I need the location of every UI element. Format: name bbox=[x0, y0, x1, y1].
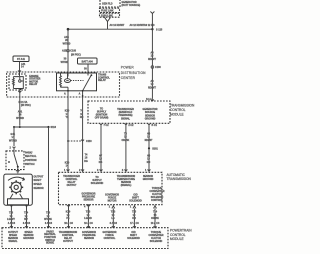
svg-text:3 A C3: 3 A C3 bbox=[110, 222, 118, 225]
svg-text:SOLENOID: SOLENOID bbox=[91, 182, 104, 185]
svg-text:S100 LINK: S100 LINK bbox=[101, 14, 113, 17]
svg-text:2 C2: 2 C2 bbox=[128, 124, 134, 127]
svg-text:MODULE: MODULE bbox=[170, 113, 184, 117]
TCM pin 2 bbox=[124, 123, 134, 172]
automatic transmission dashed box bbox=[59, 172, 163, 204]
wire from generator boxes bbox=[105, 17, 111, 29]
splice S113 wire bbox=[14, 126, 49, 128]
generator ref box G1 bbox=[100, 0, 120, 7]
transmission top pin ticks bbox=[64, 169, 70, 172]
junction S112 bbox=[67, 28, 70, 31]
svg-text:OUTPUT: OUTPUT bbox=[67, 184, 77, 187]
wire C100 to relay bbox=[67, 52, 69, 76]
svg-text:(IN PDC): (IN PDC) bbox=[21, 104, 31, 107]
svg-text:A0 14 RD/WT: A0 14 RD/WT bbox=[110, 24, 125, 27]
svg-text:RD/WT: RD/WT bbox=[145, 139, 153, 142]
svg-text:RD: RD bbox=[147, 161, 151, 164]
pin wire 134.4 twisted bbox=[130, 205, 136, 225]
svg-text:POWER: POWER bbox=[121, 66, 135, 70]
pin tick bbox=[151, 100, 154, 102]
svg-text:WT/RD: WT/RD bbox=[61, 61, 69, 64]
pin wire 68.5 bbox=[67, 205, 70, 225]
svg-text:B C1: B C1 bbox=[152, 124, 158, 127]
svg-text:MOTOR: MOTOR bbox=[108, 200, 117, 203]
svg-text:GEN FLD: GEN FLD bbox=[102, 3, 113, 6]
PCM pin text col6 bbox=[103, 231, 117, 240]
wire relay contact down bbox=[82, 91, 84, 173]
transmission inner text col5 bbox=[82, 193, 96, 202]
svg-text:SENSOR: SENSOR bbox=[84, 237, 94, 240]
svg-text:MODULE: MODULE bbox=[170, 237, 184, 241]
svg-text:DB: DB bbox=[99, 161, 103, 164]
svg-text:OFF DRAW): OFF DRAW) bbox=[95, 117, 109, 120]
node ST A41 box bbox=[13, 56, 29, 62]
PCM label bbox=[170, 229, 192, 241]
pin 2 tick bbox=[10, 147, 16, 151]
PCM pin text col2 bbox=[23, 231, 34, 240]
pin wire 113.3 twisted bbox=[109, 205, 115, 225]
engine starter motor relay box bbox=[9, 74, 26, 97]
PCM pin text col1 bbox=[8, 231, 19, 243]
svg-text:SENSOR: SENSOR bbox=[83, 199, 93, 202]
ref box col1 text bbox=[95, 108, 109, 120]
junction S113 bbox=[47, 126, 49, 128]
transmission inner text col4 bbox=[143, 175, 154, 181]
ref box col3 text bbox=[142, 108, 157, 120]
svg-text:OR: OR bbox=[132, 217, 136, 220]
wire C130 to TCM box bbox=[151, 69, 153, 102]
svg-text:RELAY: RELAY bbox=[29, 83, 37, 86]
PCM pin text col8 bbox=[148, 231, 163, 243]
fuse label below PDC bbox=[19, 101, 31, 107]
PCM pin text col7 bbox=[127, 231, 140, 240]
trans relay label bbox=[98, 74, 110, 83]
wire S113 down to PCM bbox=[48, 127, 50, 228]
ref box col2 text bbox=[117, 108, 134, 120]
bus wire bbox=[68, 28, 152, 30]
svg-text:OUTPUT: OUTPUT bbox=[63, 240, 73, 243]
svg-text:RD/WT: RD/WT bbox=[148, 58, 156, 61]
svg-text:6 A C3: 6 A C3 bbox=[45, 222, 53, 225]
svg-text:LG/RD: LG/RD bbox=[84, 217, 92, 220]
svg-text:SOLENOID: SOLENOID bbox=[150, 240, 163, 243]
svg-text:CONTROL: CONTROL bbox=[151, 199, 163, 202]
junction contact pin bbox=[82, 90, 84, 92]
transmission inner text col2 bbox=[91, 176, 104, 185]
ground bbox=[16, 171, 20, 173]
svg-text:TRANSMISSION: TRANSMISSION bbox=[167, 177, 192, 181]
transmission inner text col3 bbox=[117, 175, 136, 187]
svg-text:SIGNAL: SIGNAL bbox=[121, 117, 131, 120]
connector C130 bbox=[151, 66, 161, 69]
svg-text:YL: YL bbox=[65, 116, 69, 119]
svg-text:SIGNAL: SIGNAL bbox=[8, 240, 18, 243]
junction coil pin bbox=[67, 90, 69, 92]
wire splice to PNP switch bbox=[13, 127, 15, 146]
PCM pin text col4 bbox=[59, 231, 78, 243]
svg-text:LG: LG bbox=[111, 217, 114, 220]
svg-text:OR/BK: OR/BK bbox=[151, 217, 159, 220]
svg-text:A0 12 RD/WT: A0 12 RD/WT bbox=[130, 24, 145, 27]
svg-text:(BATT SOURCE): (BATT SOURCE) bbox=[122, 4, 141, 7]
starter relay label bbox=[29, 75, 40, 86]
sensor pins bbox=[10, 205, 27, 228]
junction S125 bbox=[151, 28, 153, 30]
svg-text:18 A C3: 18 A C3 bbox=[84, 222, 93, 225]
svg-text:POSITION: POSITION bbox=[25, 159, 37, 162]
svg-text:(IN PDC): (IN PDC) bbox=[71, 54, 81, 57]
fusible link box bbox=[100, 8, 120, 12]
park neutral position switch bbox=[6, 151, 24, 170]
PDC label bbox=[121, 66, 146, 80]
svg-text:S113: S113 bbox=[51, 126, 57, 129]
svg-text:13 A C3: 13 A C3 bbox=[151, 222, 160, 225]
svg-text:SWITCH: SWITCH bbox=[25, 163, 35, 166]
svg-text:10 A C3: 10 A C3 bbox=[64, 222, 73, 225]
connector C110 bbox=[67, 140, 92, 144]
svg-text:(SIGNAL): (SIGNAL) bbox=[121, 184, 132, 187]
PCM pin text col5 bbox=[82, 231, 96, 240]
svg-text:A: A bbox=[64, 93, 66, 96]
svg-text:BATT A04: BATT A04 bbox=[82, 60, 94, 63]
PCM pin text col3 bbox=[44, 230, 56, 244]
svg-text:SENSE: SENSE bbox=[46, 242, 55, 245]
svg-text:DG: DG bbox=[84, 160, 88, 163]
wire coil to transmission bbox=[67, 91, 69, 173]
pin wire 155 twisted bbox=[154, 205, 157, 225]
svg-text:ST A41: ST A41 bbox=[17, 58, 26, 61]
svg-text:C100: C100 bbox=[70, 50, 76, 53]
svg-text:RD: RD bbox=[80, 116, 84, 119]
svg-text:7 C2: 7 C2 bbox=[104, 124, 110, 127]
svg-text:CONTROL: CONTROL bbox=[170, 108, 186, 112]
TCM pin 1 bbox=[100, 123, 110, 172]
connector C100 bbox=[62, 49, 81, 56]
svg-text:WT/BK: WT/BK bbox=[44, 218, 52, 221]
wire starter relay bottom junction bbox=[18, 91, 21, 93]
svg-text:C130: C130 bbox=[155, 66, 161, 69]
TCM label bbox=[170, 104, 195, 117]
svg-text:GROUND: GROUND bbox=[145, 117, 156, 120]
splice S101 bbox=[148, 147, 150, 149]
svg-text:S101: S101 bbox=[152, 148, 158, 151]
svg-text:CONTROL: CONTROL bbox=[104, 237, 116, 240]
svg-text:SOLENOID: SOLENOID bbox=[127, 237, 140, 240]
svg-text:A: A bbox=[79, 93, 81, 96]
svg-text:4 A C3: 4 A C3 bbox=[8, 222, 16, 225]
svg-text:A1B: A1B bbox=[62, 50, 67, 53]
svg-text:C110: C110 bbox=[86, 140, 92, 143]
svg-text:RELAY: RELAY bbox=[98, 79, 106, 82]
svg-text:NEUTRAL: NEUTRAL bbox=[25, 155, 37, 158]
svg-text:LG/WT: LG/WT bbox=[7, 218, 15, 221]
svg-text:17 A C3: 17 A C3 bbox=[130, 222, 139, 225]
svg-text:WT: WT bbox=[24, 218, 28, 221]
svg-text:OUTPUT: OUTPUT bbox=[34, 175, 44, 178]
svg-text:RD/WT: RD/WT bbox=[148, 87, 156, 90]
svg-text:DISTRIBUTION: DISTRIBUTION bbox=[121, 71, 146, 75]
svg-text:SHAFT: SHAFT bbox=[34, 179, 43, 182]
PNP switch label bbox=[25, 151, 37, 165]
TCM pin 3 bbox=[148, 123, 158, 172]
sensor label bbox=[34, 175, 44, 189]
wire starter relay to splice bbox=[19, 97, 21, 126]
svg-text:S 125: S 125 bbox=[156, 28, 163, 31]
svg-text:FUSE LINK: FUSE LINK bbox=[101, 10, 114, 13]
right feed wire top bbox=[150, 12, 154, 66]
power distribution center dashed box bbox=[7, 72, 120, 97]
wire BATT to relay bbox=[87, 64, 89, 75]
svg-text:GROUND: GROUND bbox=[23, 237, 34, 240]
automatic transmission label bbox=[167, 173, 192, 181]
pin wire 88.4 bbox=[84, 205, 90, 225]
svg-text:WT/RD: WT/RD bbox=[16, 117, 24, 120]
svg-text:WT/RD: WT/RD bbox=[63, 42, 71, 45]
svg-text:GROUND: GROUND bbox=[143, 178, 154, 181]
junction on PDC edge bbox=[82, 95, 84, 97]
node BATT A04 box bbox=[78, 58, 98, 64]
svg-text:SPEED: SPEED bbox=[34, 183, 42, 186]
transmission inner text col6 bbox=[105, 194, 119, 203]
transmission inner text col8 torque converter bbox=[149, 187, 164, 202]
junction left bbox=[13, 126, 15, 128]
svg-text:A0 12 RD: A0 12 RD bbox=[144, 24, 155, 27]
transmission inner text col1 bbox=[63, 175, 80, 187]
svg-text:PARK/: PARK/ bbox=[25, 151, 33, 154]
svg-text:PK: PK bbox=[66, 217, 70, 220]
transmission control relay box bbox=[57, 73, 97, 91]
junction from starter relay bbox=[19, 126, 21, 128]
pin tick into PDC bbox=[18, 71, 21, 73]
svg-text:SENSOR: SENSOR bbox=[34, 187, 44, 190]
svg-text:8 A C3: 8 A C3 bbox=[23, 222, 31, 225]
svg-text:CENTER: CENTER bbox=[121, 76, 136, 80]
wire ST to starter relay bbox=[19, 62, 21, 77]
output shaft speed sensor box bbox=[4, 174, 33, 205]
transmission inner text col7 bbox=[129, 194, 142, 203]
powertrain control module dashed box bbox=[2, 228, 168, 249]
svg-text:OR/BK: OR/BK bbox=[122, 139, 130, 142]
svg-text:WT/RD: WT/RD bbox=[9, 139, 17, 142]
svg-text:SOLENOID: SOLENOID bbox=[129, 200, 142, 203]
svg-text:TRANSMISSION: TRANSMISSION bbox=[170, 104, 195, 108]
small ref dashed box TCM bbox=[88, 101, 170, 123]
wire bus to C100 bbox=[67, 29, 69, 49]
splice box bbox=[100, 13, 120, 17]
PCM pin ticks bbox=[10, 225, 157, 228]
